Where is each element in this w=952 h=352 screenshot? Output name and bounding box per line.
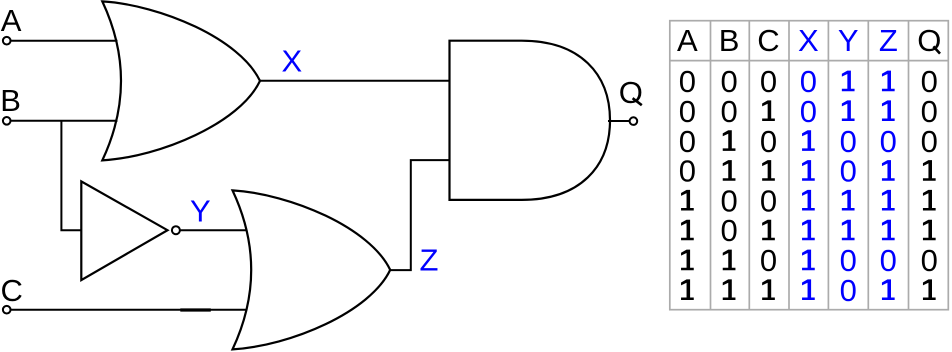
svg-text:X: X [282, 43, 303, 78]
wire C overlap segment (thicker) [180, 308, 211, 311]
node label Y [190, 194, 211, 229]
svg-text:X: X [798, 23, 819, 58]
svg-text:0: 0 [760, 183, 777, 218]
node label Z [420, 242, 439, 277]
svg-text:0: 0 [679, 154, 696, 189]
svg-text:Z: Z [420, 242, 439, 277]
svg-text:0: 0 [720, 213, 737, 248]
row 7 [681, 243, 938, 278]
svg-text:0: 0 [880, 243, 897, 278]
wire Q [608, 120, 630, 122]
not-gate (inverter, Y = not B) [81, 181, 167, 280]
wire X from OR1 to AND [260, 80, 450, 82]
svg-text:0: 0 [921, 243, 938, 278]
truth table data rows [679, 64, 938, 308]
not-gate output bubble [172, 226, 180, 234]
truth table frame [670, 21, 949, 310]
svg-text:Z: Z [879, 23, 898, 58]
svg-text:0: 0 [880, 124, 897, 159]
svg-text:0: 0 [840, 273, 857, 308]
svg-text:B: B [719, 23, 740, 58]
row 5 [681, 183, 936, 218]
wire B to OR1 [11, 120, 118, 122]
wire A to OR1 [11, 40, 118, 42]
or-gate OR2 (Z = Y or C) [233, 190, 391, 349]
output label Q [619, 75, 643, 110]
svg-text:A: A [1, 3, 22, 38]
row 6 [681, 213, 936, 248]
row 8 [681, 273, 936, 308]
input terminal A [3, 37, 11, 45]
node label X [282, 43, 303, 78]
truth table header row [677, 23, 941, 58]
wire C to OR2 [11, 309, 247, 311]
input terminal B [3, 117, 11, 125]
svg-text:Y: Y [838, 23, 859, 58]
svg-text:0: 0 [760, 64, 777, 99]
wire Z from OR2 to AND (routed) [390, 160, 449, 270]
svg-text:A: A [677, 23, 698, 58]
svg-text:0: 0 [800, 94, 817, 129]
svg-text:0: 0 [760, 124, 777, 159]
svg-text:C: C [757, 23, 779, 58]
row 3 [679, 124, 938, 159]
svg-text:0: 0 [840, 154, 857, 189]
output terminal Q [630, 117, 638, 125]
row 4 [679, 154, 936, 189]
input label B [0, 83, 21, 118]
row 2 [679, 94, 938, 129]
or-gate OR1 (X = A or B) [102, 1, 260, 160]
input label C [1, 273, 23, 308]
wire B branch to NOT input [61, 121, 82, 231]
svg-text:Y: Y [190, 194, 211, 229]
input label A [1, 3, 22, 38]
row 1 [679, 64, 938, 99]
wire Y to OR2 [180, 229, 247, 231]
input terminal C [3, 306, 11, 314]
svg-text:0: 0 [921, 124, 938, 159]
svg-text:B: B [0, 83, 21, 118]
svg-text:0: 0 [720, 94, 737, 129]
and-gate (Q = X and Z) [450, 41, 611, 200]
svg-text:0: 0 [760, 243, 777, 278]
svg-text:C: C [1, 273, 23, 308]
